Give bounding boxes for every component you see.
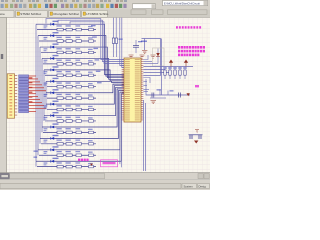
- vertical wires into U1 top corner: [120, 18, 124, 68]
- net labels at fan bends: [91, 25, 102, 83]
- tab Chongdian SchDoc: [49, 10, 81, 17]
- resistor R22 vertical: [173, 67, 177, 80]
- toolbar icons row 1 (clipped): [1, 0, 127, 2]
- wire loop right of U1: [142, 39, 161, 76]
- resistor R23 vertical: [178, 67, 182, 80]
- balancing cell row 10: [42, 89, 124, 134]
- scrollbar row: [0, 173, 210, 180]
- bus net labels bottom left: [34, 151, 38, 158]
- balancing cell row 12: [38, 92, 124, 156]
- extra cap stubs on V- rail: [150, 90, 168, 99]
- svg-text:System: System: [184, 184, 194, 188]
- top bus wires: [46, 19, 124, 64]
- crystal/cap cluster bottom right: [189, 130, 203, 144]
- tab Home: [0, 10, 14, 17]
- status bar: [0, 180, 210, 191]
- svg-text:E:\MCU_Work\DianChi\Circuit: E:\MCU_Work\DianChi\Circuit: [164, 1, 200, 5]
- resistor R20 vertical: [163, 67, 167, 80]
- zener D14 with outline box: [153, 48, 165, 66]
- balancing cell row 13: [36, 94, 124, 168]
- balancing cell row 5: [44, 66, 125, 81]
- decoupling caps cluster: [146, 79, 199, 98]
- magenta text bottom: [78, 159, 89, 161]
- IC U1 LTC6804: [122, 58, 144, 122]
- tab-bar right field 3: [168, 10, 208, 15]
- svg-text:Home: Home: [0, 12, 5, 16]
- resistor array RN (13 series resistors): [19, 75, 29, 113]
- tab-bar right field 2: [152, 10, 164, 15]
- tab STM32 SchDoc: [16, 10, 48, 17]
- svg-text:LTC6804 SchDo: LTC6804 SchDo: [86, 12, 108, 16]
- red tap wires to bus: [29, 76, 46, 111]
- tab-bar right field 1: [131, 10, 146, 15]
- wires below U1: [144, 100, 146, 171]
- magenta label box bottom: [101, 160, 118, 167]
- power symbol bottom center: [90, 164, 93, 166]
- balancing cell row 11: [40, 91, 124, 146]
- resistor R21 vertical: [168, 67, 172, 80]
- resistor R24 vertical: [183, 67, 187, 80]
- capacitor C near U1 top: [133, 40, 142, 53]
- balancing cell row 7: [44, 84, 125, 99]
- ground symbol at x=128.5: [129, 55, 134, 58]
- extended fan verticals to bottom row: [120, 150, 121, 167]
- svg-text:Chongdian SchDoc: Chongdian SchDoc: [53, 12, 79, 16]
- magenta note line 3: [178, 50, 205, 53]
- ground symbol below caps: [151, 101, 157, 104]
- ground symbol on loop: [142, 51, 147, 54]
- ground symbol at x=150.5: [151, 55, 156, 58]
- document tab bar: [0, 10, 210, 18]
- net label near loop: [141, 41, 147, 42]
- pull-up resistors above U1: [112, 18, 122, 57]
- horizontal bus right of U1: [143, 62, 193, 73]
- toolbar combo box: [133, 4, 156, 9]
- svg-text:Desig: Desig: [199, 184, 207, 188]
- editor sheet tab: [0, 173, 10, 179]
- ground symbol at x=139.5: [140, 55, 145, 58]
- left vertical wire bus (nested cell taps): [36, 24, 46, 166]
- balancing cell row 1: [36, 21, 124, 75]
- balancing cell row 4: [42, 55, 124, 79]
- balancing cell row 9: [44, 87, 125, 122]
- toolbar icons row 2: [1, 4, 127, 8]
- balancing cell row 8: [44, 86, 125, 111]
- schematic canvas background: [7, 18, 211, 173]
- balancing cell row 6: [44, 78, 125, 88]
- tab LTC6804 SchDo: [82, 10, 109, 17]
- magenta note line 2: [178, 46, 205, 49]
- vertical wire net V+: [161, 39, 163, 96]
- elbow wires right of U1: [143, 55, 150, 92]
- power symbol at x=186: [184, 60, 187, 66]
- toolbar background: [0, 0, 210, 10]
- file path box: [163, 1, 208, 6]
- balancing cell row 2: [38, 32, 124, 76]
- power symbol at x=171: [169, 60, 172, 66]
- red net labels on taps: [29, 77, 33, 102]
- magenta note line 1: [176, 26, 201, 28]
- magenta note line 4: [178, 54, 199, 57]
- balancing cell row 3: [40, 43, 124, 77]
- connector J1 (battery header): [7, 74, 17, 118]
- left panel strip: [0, 18, 7, 173]
- svg-text:STM32 SchDoc: STM32 SchDoc: [20, 12, 42, 16]
